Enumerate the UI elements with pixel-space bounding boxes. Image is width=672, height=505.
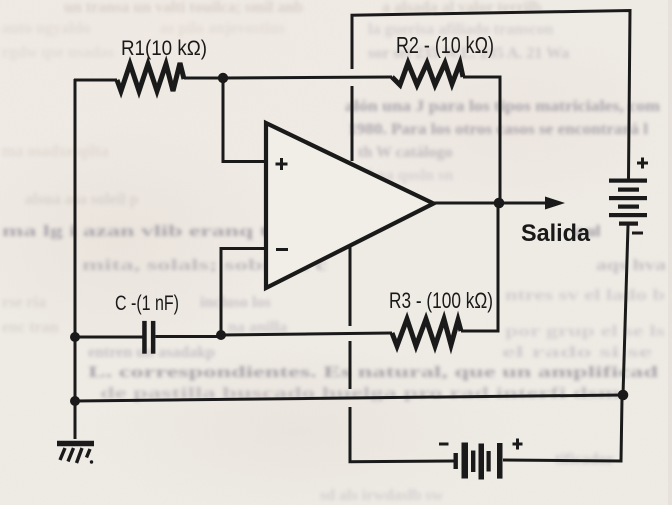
battery B1 plate long 2: [609, 196, 647, 200]
battery B1 plate short 2: [618, 205, 639, 209]
label B2 plus: [513, 439, 523, 450]
ground: [57, 444, 94, 464]
battery B1 plate short 1: [618, 188, 639, 192]
node junction ground rail / capacitor wire: [70, 332, 80, 342]
svg-text:th W catálogo: th W catálogo: [358, 144, 453, 161]
node junction R1/R2/+input: [218, 73, 228, 83]
svg-text:incluso los: incluso los: [200, 294, 271, 311]
svg-text:rse ria: rse ria: [2, 294, 46, 311]
wire B2 right up to mid node: [503, 398, 622, 461]
wire positive supply V+ from op-amp top to battery B1: [351, 11, 631, 179]
battery B2 plate short 3: [487, 451, 491, 472]
wire capacitor left: [75, 336, 143, 339]
wire R2 left: [223, 77, 392, 78]
op-amp U1: [266, 123, 434, 288]
svg-text:un transa un valti touilca; sm: un transa un valti touilca; smil anb: [64, 0, 303, 16]
resistor R1: [117, 63, 184, 91]
svg-text:R2 - (10 kΩ): R2 - (10 kΩ): [396, 32, 494, 58]
svg-text:L. correspondientes. Es natura: L. correspondientes. Es natural, que un …: [88, 364, 658, 381]
svg-text:ntres sv el lado b: ntres sv el lado b: [505, 287, 665, 304]
battery B2 plate short 1: [454, 453, 458, 469]
wire R3 right up to output: [461, 203, 498, 331]
wire to noninverting input: [223, 78, 266, 162]
svg-text:sd als irwdaslb sw: sd als irwdaslb sw: [320, 487, 444, 504]
wire R1 left: [74, 79, 117, 82]
wire R2 right down to output: [463, 77, 500, 203]
svg-text:R1(10 kΩ): R1(10 kΩ): [121, 37, 207, 60]
label B2 minus: [439, 443, 449, 446]
svg-text:Salida: Salida: [521, 220, 590, 247]
wire B1 bottom to mid node: [623, 226, 628, 396]
svg-text:rgdw qse usadas: rgdw qse usadas: [2, 44, 114, 61]
node junction supply midpoint: [618, 390, 629, 401]
battery B1 plate long 3: [609, 213, 647, 217]
svg-text:alsua asa soleil p: alsua asa soleil p: [25, 191, 138, 208]
wire R1 right: [184, 77, 223, 80]
svg-text:el rado si se: el rado si se: [502, 344, 652, 361]
arrow output: [545, 197, 565, 210]
wire capacitor right: [156, 335, 222, 338]
battery B2 plate long 3: [497, 443, 503, 479]
svg-text:as pilo anjevostius: as pilo anjevostius: [160, 20, 284, 37]
svg-text:1980. Para los otros casos se: 1980. Para los otros casos se encontrará…: [348, 121, 649, 138]
battery B2 plate long 1: [462, 443, 469, 479]
svg-text:ma osadxe qilta: ma osadxe qilta: [2, 143, 109, 160]
battery B1 plate short 3: [619, 222, 638, 226]
wire output: [434, 202, 546, 205]
label U1 plus input: [276, 158, 288, 170]
wire ground return horizontal: [75, 395, 623, 401]
battery B2 plate short 2: [471, 451, 475, 473]
svg-text:enc tran: enc tran: [2, 319, 59, 336]
label B1 plus: [637, 158, 648, 169]
resistor R2: [392, 63, 463, 85]
node junction output: [494, 198, 505, 209]
svg-text:C -(1 nF): C -(1 nF): [115, 292, 179, 315]
wire negative supply V- from op-amp bottom to battery B2: [349, 245, 454, 462]
svg-text:por grup el se ls: por grup el se ls: [505, 323, 665, 340]
label B1 minus: [632, 232, 643, 235]
wire left vertical rail (ground rail): [74, 79, 77, 439]
svg-text:aqs hva: aqs hva: [596, 257, 666, 274]
wire to inverting input: [221, 249, 266, 336]
svg-text:R3 - (100 kΩ): R3 - (100 kΩ): [389, 288, 493, 313]
wire R3 left: [221, 333, 392, 335]
svg-text:auto ugyaldo: auto ugyaldo: [2, 20, 90, 37]
svg-text:alón una J para los tipos matr: alón una J para los tipos matriciales, c…: [345, 98, 661, 115]
capacitor C: [142, 321, 155, 354]
node junction C / R3 / inverting input: [216, 330, 226, 340]
label U1 minus input: [276, 248, 288, 251]
resistor R3: [392, 319, 461, 346]
node junction ground rail / return wire: [70, 396, 80, 406]
battery B2 plate long 2: [479, 444, 485, 480]
battery B1 plate long 1: [609, 179, 647, 183]
